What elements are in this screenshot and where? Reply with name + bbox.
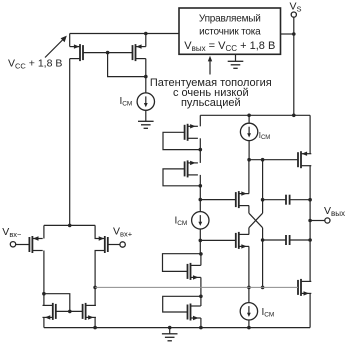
node I_CM4 on ground rail [247, 326, 251, 330]
annotation patented topology line 2 [173, 87, 249, 99]
node I_CM2 to MB gate [199, 239, 203, 243]
svg-text:пульсацией: пульсацией [181, 97, 241, 109]
wire input pair source rail [44, 224, 95, 226]
node N2 source on rail [199, 326, 203, 330]
wire VS terminal stem [293, 17, 295, 34]
wire node to MB gate [200, 239, 236, 241]
wire INR gate lead [108, 244, 120, 246]
wire gate to drain (diode connection) [108, 53, 146, 77]
wire INL source corner [43, 225, 45, 238]
wire D1 drain to D2 source [199, 138, 201, 163]
wire rail to I_CM3 [248, 115, 250, 123]
current source I_CM4 (bottom) [240, 303, 257, 320]
wire N1 source down [200, 277, 202, 296]
wire rail1 (second stage drive) [95, 286, 298, 288]
node D1 drain-gate [199, 148, 203, 152]
wire I_CM2 down [199, 229, 201, 254]
wire I_CM3 down [248, 141, 250, 160]
wire cap2 right lead [290, 239, 311, 241]
node mirror diode junction [42, 292, 46, 296]
wire box to VS node [281, 33, 294, 35]
wire crossover to MB drain [248, 228, 250, 235]
wire crossover diagonal 1 [249, 213, 263, 228]
node cap2 left [261, 238, 265, 242]
controlled current source box U1 [179, 8, 281, 54]
wire D1 gate loop [163, 132, 200, 149]
node VS junction [292, 32, 296, 36]
capacitor C2 [286, 235, 290, 245]
wire M1-M2 gate link [83, 52, 133, 54]
wire M2 source to rail [145, 34, 147, 47]
terminal Vin+ [120, 242, 125, 247]
label I_CM1 [120, 96, 133, 108]
wire bias node to MA gate [200, 199, 236, 201]
current source I_CM1 (top left) [137, 93, 154, 110]
label Vin+ [113, 226, 133, 239]
transistor N2 (diode-connected NMOS, bias stack) [188, 304, 201, 321]
node mirror gates [68, 310, 72, 314]
transistor MB (class-AB lower) [236, 232, 249, 249]
wire crossover down to rail1 [262, 228, 264, 288]
wire crossover diagonal 2 [249, 213, 263, 228]
node crossover on rail1 [261, 286, 265, 290]
node tail on source rail [68, 224, 72, 228]
annotation arrow to box [208, 56, 212, 75]
wire INL gate lead [16, 244, 30, 246]
wire INR source corner [94, 225, 96, 238]
wire M1 source to rail [69, 34, 71, 47]
annotation patented topology line 3 [181, 97, 241, 109]
wire N1 gate loop [163, 254, 201, 272]
wire M2 drain down [145, 59, 147, 77]
wire rail corner to D1 [199, 115, 201, 126]
node N1 drain-gate [199, 252, 203, 256]
node gate mirror junction [106, 51, 110, 55]
current source I_CM2 (middle) [192, 212, 209, 229]
wire mirror gate link [56, 310, 83, 312]
node Vout tap [308, 219, 312, 223]
wire MA source up [248, 160, 250, 194]
label I_CM3 [259, 131, 271, 141]
node MB source on rail1 [247, 286, 251, 290]
wire N2 gate loop [163, 296, 201, 312]
wire D2 gate loop [163, 169, 200, 186]
wire I_CM1 to ground [145, 110, 147, 121]
label box line 2 [199, 27, 261, 38]
wire cap1 right lead [290, 199, 311, 201]
wire I_CM4 to ground rail [248, 320, 250, 328]
transistor N1 (diode-connected NMOS, bias stack) [188, 263, 201, 280]
wire tail current line [69, 59, 71, 226]
current source I_CM3 (top right) [240, 123, 257, 140]
annotation arrow to VCC+1.8 rail [45, 36, 67, 58]
ground symbol bottom [162, 334, 178, 341]
transistor ML (NMOS mirror diode) [43, 303, 56, 320]
wire top supply rail [70, 33, 179, 35]
node MR source on rail [93, 326, 97, 330]
node cap1 left [261, 198, 265, 202]
node rail/I_CM3 [247, 114, 251, 118]
label box line 1 [199, 13, 261, 24]
node ground tap [168, 326, 172, 330]
wire ground stub [169, 328, 171, 334]
wire output node vertical [309, 166, 311, 282]
wire mirror diode loop [44, 294, 70, 312]
wire N1 drain up [200, 254, 202, 266]
node D2 drain-gate [199, 184, 203, 188]
node rail1 start [93, 286, 97, 290]
transistor MOP (PMOS output, top right) [298, 151, 311, 168]
node cap2 right [308, 238, 312, 242]
transistor M1 (PMOS current mirror output, top left) [70, 44, 83, 61]
transistor D1 (diode-connected, bias stack) [185, 124, 198, 141]
node M2 drain junction [144, 75, 148, 79]
svg-text:Управляемый: Управляемый [199, 13, 261, 24]
wire cap2 left lead [263, 239, 286, 241]
terminal VS [291, 12, 296, 17]
wire MR source to ground rail [94, 317, 96, 327]
svg-text:источник тока: источник тока [199, 27, 261, 38]
wire VS rail down right side [293, 34, 295, 115]
label I_CM4 [262, 307, 275, 319]
node bias to MA gate [199, 198, 203, 202]
transistor MIN+ (PMOS input, non-inverting) [95, 236, 108, 253]
wire cap1 branch down to crossover [262, 160, 264, 214]
annotation patented topology line 1 [150, 77, 272, 89]
terminal Vin- [10, 242, 15, 247]
wire N2 source to ground rail [200, 318, 202, 328]
label Vin- [2, 226, 22, 239]
node rail/VS [292, 114, 296, 118]
transistor MR (NMOS mirror output) [83, 303, 96, 320]
node M2 source on rail [144, 32, 148, 36]
ground below I_CM1 [138, 121, 154, 128]
transistor MIN- (PMOS input, inverting) [29, 236, 42, 253]
label VCC+1.8V [8, 58, 62, 71]
transistor M2 (PMOS diode-connected, top mirror) [133, 44, 146, 61]
ground below box [228, 61, 244, 68]
wire MOP source to rail [309, 115, 311, 153]
label box line 3 [184, 40, 275, 53]
wire D2 drain down to I_CM2 [199, 175, 201, 212]
wire ground rail [44, 327, 310, 329]
wire MON source down [309, 293, 311, 327]
wire INL drain down [43, 251, 45, 306]
wire INR drain down [94, 251, 96, 306]
wire MA drain to crossover [248, 206, 250, 214]
label I_CM2 [175, 216, 188, 228]
transistor D2 (diode-connected, bias stack) [185, 160, 198, 177]
wire ML source to ground rail [43, 317, 45, 327]
node N2 drain-gate [199, 295, 203, 299]
wire cap1 left lead [263, 199, 286, 201]
capacitor C1 [286, 195, 290, 205]
wire MB source down to I_CM4 [248, 246, 250, 302]
label VS [290, 1, 302, 14]
label Vout [324, 205, 345, 218]
transistor MA (class-AB upper) [236, 191, 249, 208]
wire to output PMOS gate [249, 159, 298, 161]
node class-AB top [247, 158, 251, 162]
wire N2 drain up [200, 296, 202, 306]
terminal Vout [325, 218, 330, 223]
wire second rail [200, 114, 310, 116]
node cap1 branch [261, 158, 265, 162]
transistor MON (NMOS output, bottom right) [298, 279, 311, 296]
node cap1 right [308, 198, 312, 202]
ground stub below box [235, 54, 237, 61]
wire to current source I_CM1 [145, 77, 147, 93]
wire Vout lead [310, 220, 325, 222]
